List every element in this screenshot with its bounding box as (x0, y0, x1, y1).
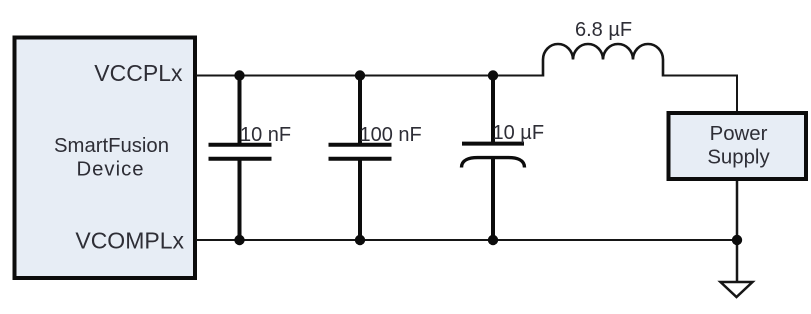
junction dot bottom rail C3 (488, 235, 498, 245)
capacitor C1 10 nF (209, 76, 292, 241)
svg-text:Supply: Supply (707, 147, 770, 169)
svg-text:6.8 µF: 6.8 µF (575, 19, 632, 41)
wire VCCPLx top rail (196, 75, 543, 77)
inductor L1 6.8 uF (543, 19, 663, 77)
junction dot bottom rail C2 (355, 235, 365, 245)
wire VCOMPLx bottom rail (196, 239, 737, 241)
junction dot top rail C3 (488, 70, 498, 80)
junction dot bottom rail C1 (234, 235, 244, 245)
svg-text:VCCPLx: VCCPLx (94, 60, 183, 86)
svg-text:100 nF: 100 nF (360, 124, 422, 146)
ground symbol (721, 282, 753, 297)
svg-text:Device: Device (77, 159, 145, 181)
junction dot top rail C1 (234, 70, 244, 80)
Power Supply box (669, 113, 807, 179)
capacitor C3 10 uF polarized (462, 76, 545, 241)
SmartFusion Device box U1 (15, 38, 196, 279)
svg-text:10 nF: 10 nF (240, 124, 291, 146)
wire power supply to ground rail (736, 180, 739, 283)
svg-text:SmartFusion: SmartFusion (54, 135, 169, 157)
junction dot top rail C2 (355, 70, 365, 80)
svg-text:10 µF: 10 µF (493, 122, 545, 144)
svg-text:VCOMPLx: VCOMPLx (75, 228, 184, 254)
junction dot bottom rail power supply (732, 235, 742, 245)
wire inductor to power supply (663, 76, 737, 113)
svg-text:Power: Power (710, 123, 768, 145)
capacitor C2 100 nF (329, 76, 422, 241)
